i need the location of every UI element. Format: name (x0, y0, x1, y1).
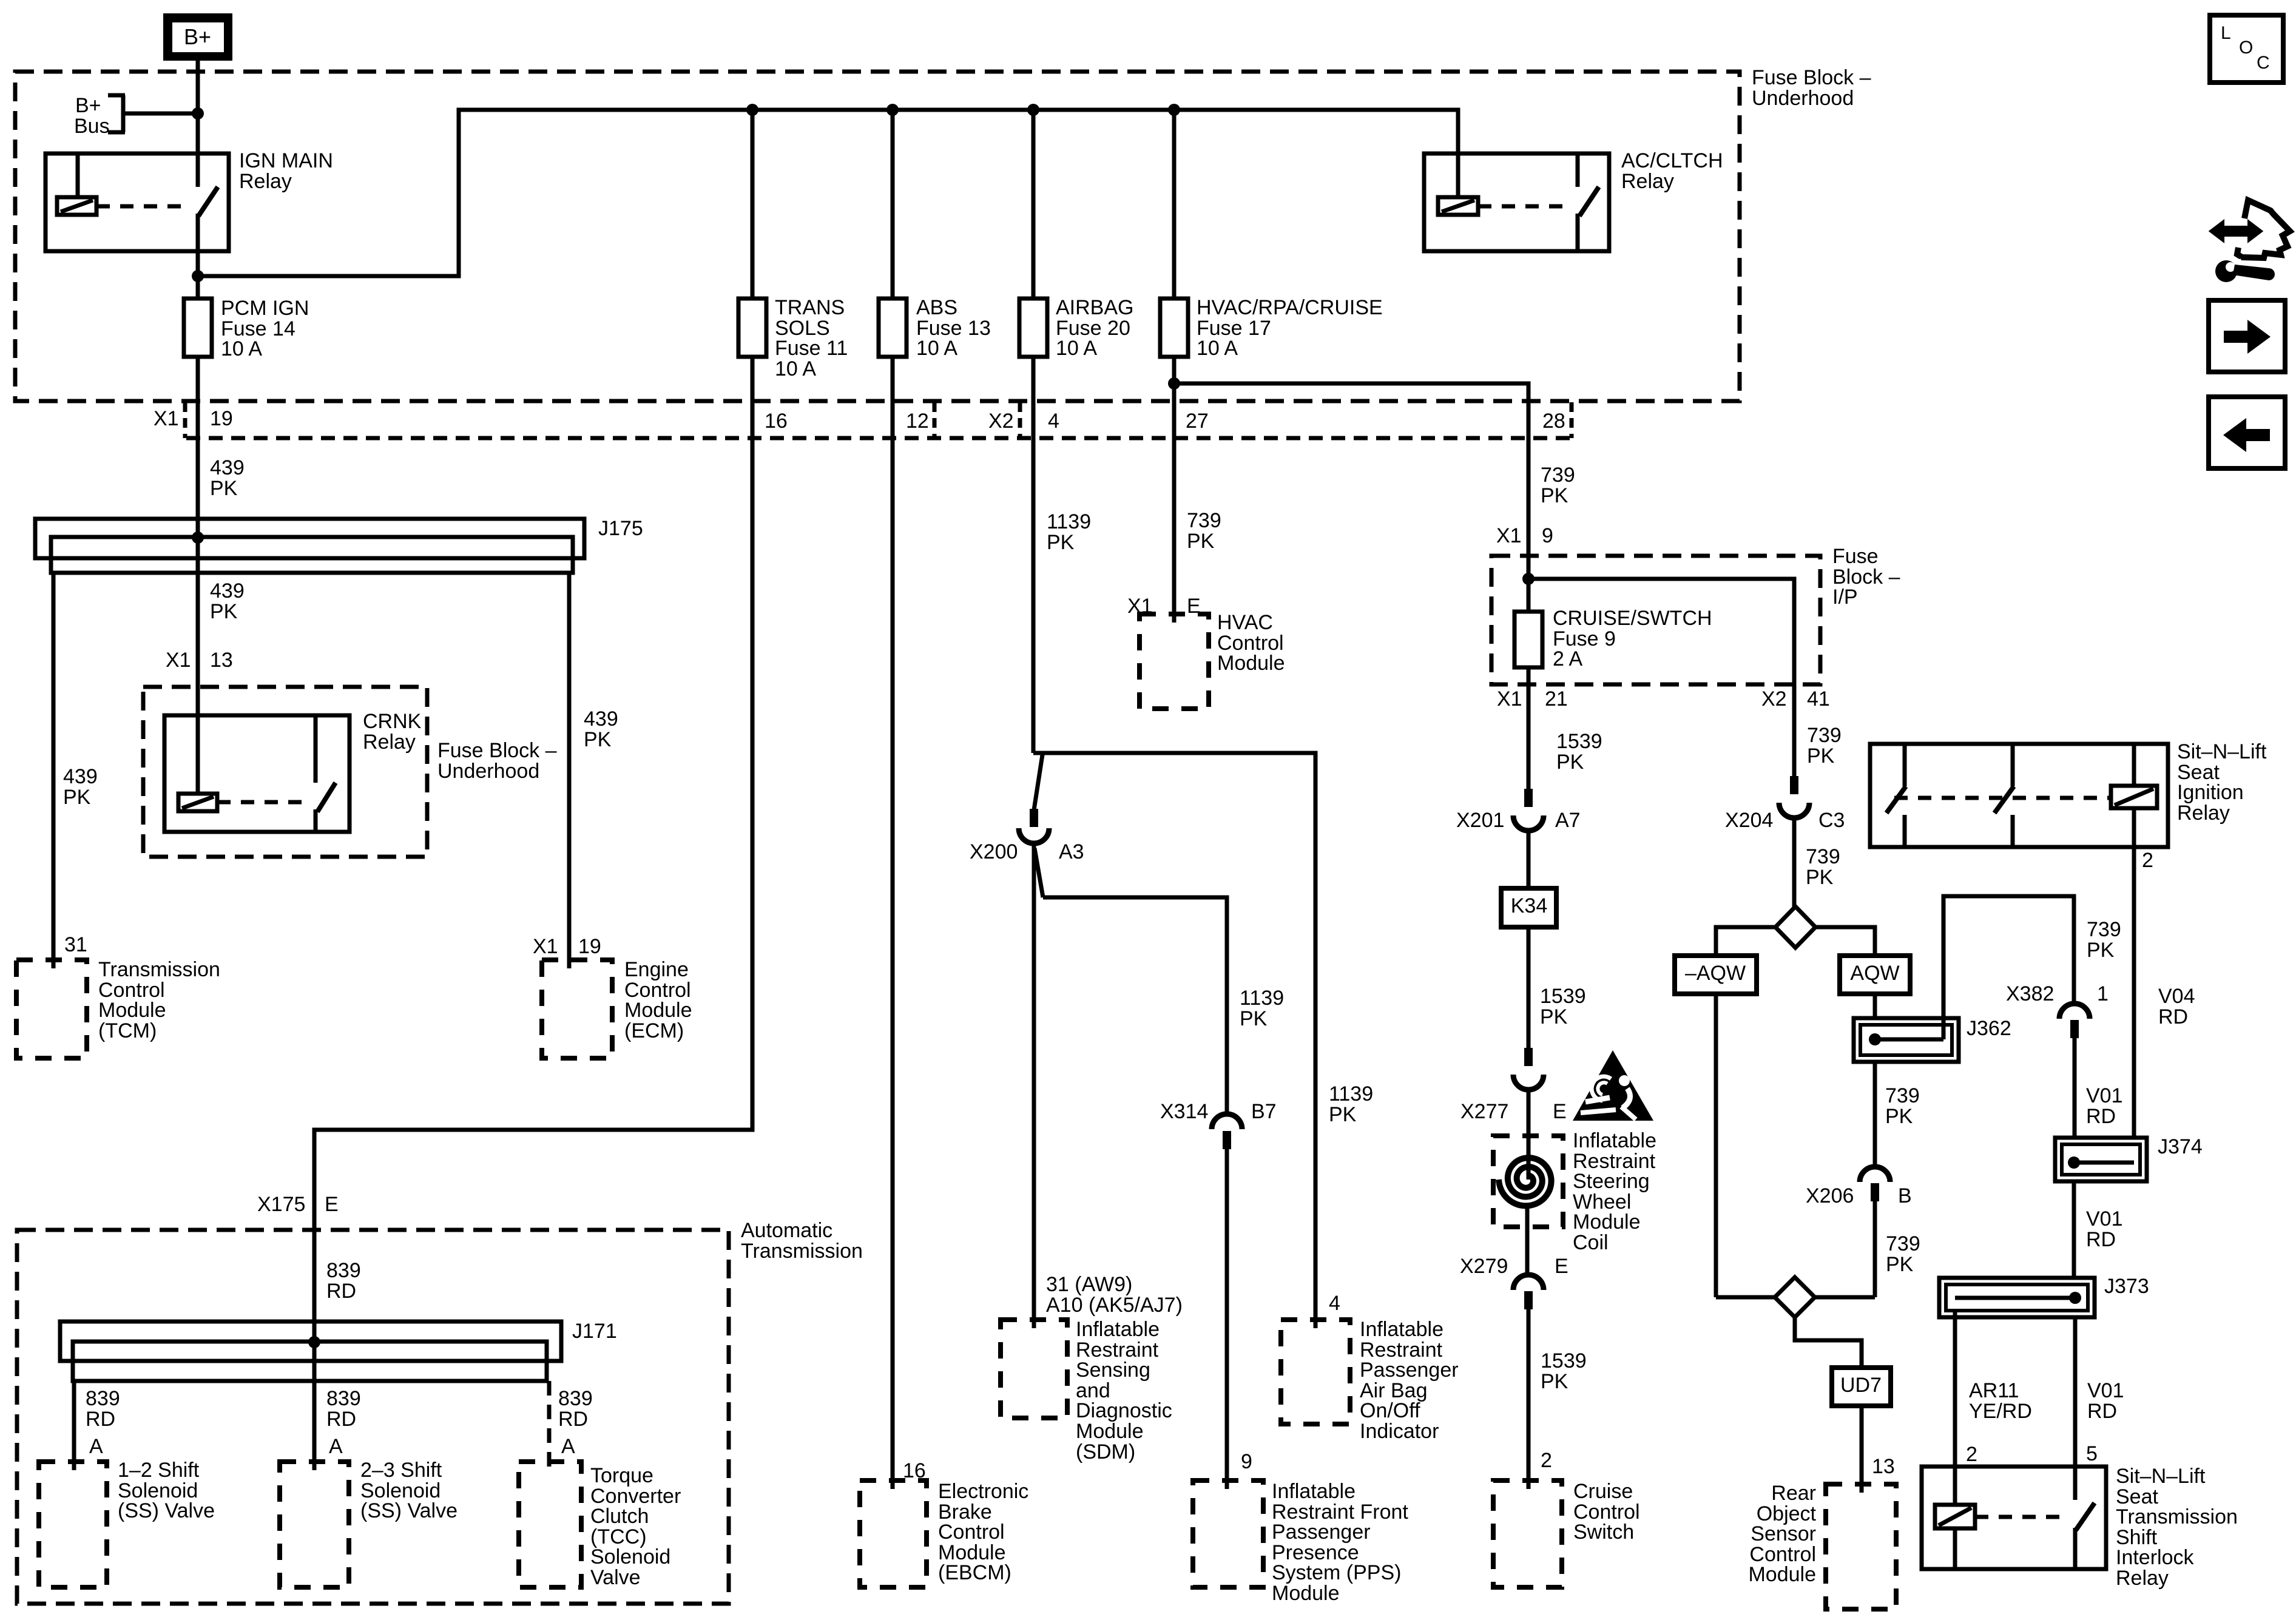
svg-text:X1: X1 (166, 649, 191, 672)
svg-text:2–3 Shift: 2–3 Shift (360, 1459, 442, 1482)
svg-text:A: A (89, 1435, 103, 1458)
svg-text:X382: X382 (2006, 982, 2054, 1005)
svg-text:X206: X206 (1806, 1184, 1854, 1207)
svg-text:RD: RD (326, 1280, 356, 1303)
svg-text:Inflatable: Inflatable (1272, 1480, 1356, 1503)
svg-text:A7: A7 (1555, 809, 1581, 832)
svg-text:A: A (329, 1435, 343, 1458)
svg-text:PK: PK (210, 477, 238, 500)
svg-text:X2: X2 (988, 410, 1014, 433)
svg-text:Fuse: Fuse (1832, 545, 1879, 568)
svg-text:J373: J373 (2104, 1275, 2149, 1298)
svg-text:V01: V01 (2086, 1207, 2123, 1230)
svg-text:2: 2 (1541, 1449, 1552, 1472)
svg-text:Inflatable: Inflatable (1573, 1129, 1656, 1152)
svg-text:V01: V01 (2086, 1084, 2123, 1107)
svg-text:Passenger: Passenger (1272, 1521, 1371, 1544)
svg-text:13: 13 (210, 649, 233, 672)
svg-text:31 (AW9): 31 (AW9) (1046, 1273, 1132, 1296)
svg-text:PK: PK (1047, 531, 1075, 554)
svg-text:13: 13 (1872, 1455, 1895, 1478)
svg-text:2 A: 2 A (1553, 647, 1582, 670)
svg-text:1139: 1139 (1329, 1082, 1373, 1106)
svg-text:X2: X2 (1761, 687, 1787, 711)
svg-text:12: 12 (906, 410, 929, 433)
svg-text:Module: Module (1573, 1210, 1641, 1234)
svg-text:PK: PK (584, 728, 612, 751)
svg-text:J362: J362 (1967, 1017, 2011, 1040)
svg-text:PK: PK (63, 786, 91, 809)
svg-text:(ECM): (ECM) (624, 1019, 684, 1042)
svg-text:–AQW: –AQW (1685, 962, 1746, 985)
svg-text:X200: X200 (970, 840, 1018, 863)
svg-text:PK: PK (1885, 1105, 1913, 1128)
svg-text:X204: X204 (1725, 809, 1773, 832)
svg-text:Transmission: Transmission (741, 1240, 863, 1263)
svg-text:9: 9 (1542, 524, 1553, 547)
svg-text:839: 839 (326, 1387, 361, 1410)
svg-text:E: E (325, 1193, 339, 1216)
svg-text:739: 739 (1541, 464, 1575, 487)
svg-text:YE/RD: YE/RD (1969, 1400, 2032, 1423)
svg-text:Module: Module (1076, 1420, 1144, 1443)
svg-text:K34: K34 (1511, 894, 1548, 917)
svg-text:(SDM): (SDM) (1076, 1440, 1135, 1463)
svg-text:RD: RD (2087, 1400, 2117, 1423)
svg-text:1: 1 (2097, 982, 2109, 1005)
svg-text:Engine: Engine (624, 958, 689, 981)
svg-text:Switch: Switch (1573, 1521, 1634, 1544)
svg-text:X314: X314 (1160, 1100, 1208, 1123)
svg-text:Bus: Bus (74, 115, 110, 138)
svg-text:PK: PK (1806, 866, 1834, 889)
svg-text:X277: X277 (1460, 1100, 1508, 1123)
svg-text:16: 16 (765, 410, 788, 433)
svg-text:RD: RD (2158, 1005, 2188, 1028)
svg-text:AQW: AQW (1850, 962, 1899, 985)
svg-text:Indicator: Indicator (1360, 1420, 1439, 1443)
svg-text:AC/CLTCH: AC/CLTCH (1621, 149, 1723, 172)
svg-text:Module: Module (1748, 1563, 1816, 1586)
svg-text:Fuse 11: Fuse 11 (775, 337, 848, 360)
svg-text:J171: J171 (572, 1320, 617, 1343)
svg-text:B7: B7 (1251, 1100, 1277, 1123)
svg-text:RD: RD (2086, 1105, 2116, 1128)
svg-text:Underhood: Underhood (437, 760, 539, 783)
svg-text:Sensing: Sensing (1076, 1359, 1150, 1382)
svg-text:Cruise: Cruise (1573, 1480, 1633, 1503)
svg-text:31: 31 (64, 933, 87, 956)
svg-text:10 A: 10 A (221, 337, 262, 360)
svg-text:19: 19 (578, 935, 601, 958)
svg-text:System (PPS): System (PPS) (1272, 1561, 1401, 1584)
svg-text:X279: X279 (1460, 1255, 1508, 1278)
svg-text:X175: X175 (257, 1193, 305, 1216)
svg-text:C3: C3 (1818, 809, 1845, 832)
svg-text:1539: 1539 (1556, 730, 1602, 753)
svg-text:(TCM): (TCM) (98, 1019, 157, 1042)
svg-text:9: 9 (1241, 1450, 1252, 1473)
svg-text:CRUISE/SWTCH: CRUISE/SWTCH (1553, 607, 1712, 630)
svg-text:V04: V04 (2158, 985, 2195, 1008)
svg-text:2: 2 (2142, 849, 2153, 872)
svg-text:PK: PK (1556, 751, 1584, 774)
svg-text:Clutch: Clutch (590, 1505, 649, 1528)
svg-text:PK: PK (1329, 1103, 1357, 1126)
svg-text:IGN MAIN: IGN MAIN (239, 149, 333, 172)
svg-text:Control: Control (938, 1521, 1005, 1544)
svg-text:10 A: 10 A (775, 357, 816, 380)
svg-text:739: 739 (1807, 724, 1842, 747)
svg-text:L: L (2221, 23, 2231, 43)
svg-text:Solenoid: Solenoid (590, 1545, 670, 1568)
svg-text:B: B (1898, 1184, 1912, 1207)
svg-text:PK: PK (1807, 744, 1835, 768)
svg-text:Diagnostic: Diagnostic (1076, 1399, 1172, 1422)
svg-text:CRNK: CRNK (363, 710, 422, 733)
svg-text:X1: X1 (1496, 524, 1522, 547)
svg-text:739: 739 (1886, 1232, 1920, 1255)
svg-text:439: 439 (63, 765, 98, 788)
svg-text:PK: PK (210, 600, 238, 623)
svg-text:839: 839 (558, 1387, 593, 1410)
svg-text:27: 27 (1186, 410, 1209, 433)
svg-text:1539: 1539 (1541, 1349, 1587, 1372)
svg-text:HVAC: HVAC (1217, 611, 1273, 634)
svg-text:Sensor: Sensor (1751, 1522, 1816, 1545)
svg-text:5: 5 (2086, 1442, 2098, 1465)
svg-text:(SS) Valve: (SS) Valve (360, 1499, 458, 1522)
svg-text:ABS: ABS (916, 296, 957, 319)
svg-text:HVAC/RPA/CRUISE: HVAC/RPA/CRUISE (1197, 296, 1383, 319)
svg-text:Valve: Valve (590, 1566, 641, 1589)
svg-text:Interlock: Interlock (2116, 1546, 2194, 1569)
svg-text:E: E (1555, 1255, 1568, 1278)
svg-text:1–2 Shift: 1–2 Shift (118, 1459, 200, 1482)
svg-text:839: 839 (86, 1387, 120, 1410)
svg-text:4: 4 (1329, 1292, 1340, 1315)
svg-text:839: 839 (326, 1259, 361, 1282)
svg-text:PCM IGN: PCM IGN (221, 297, 309, 320)
svg-text:Coil: Coil (1573, 1231, 1609, 1254)
svg-text:Steering: Steering (1573, 1170, 1650, 1193)
svg-text:(EBCM): (EBCM) (938, 1561, 1011, 1584)
svg-text:E: E (1553, 1100, 1567, 1123)
svg-text:PK: PK (1541, 484, 1568, 507)
svg-text:Module: Module (1217, 652, 1285, 675)
svg-text:Module: Module (98, 999, 166, 1022)
svg-text:Relay: Relay (2177, 802, 2230, 825)
svg-text:Sit–N–Lift: Sit–N–Lift (2177, 740, 2267, 763)
svg-text:X1: X1 (154, 407, 179, 430)
svg-text:10 A: 10 A (1197, 337, 1238, 360)
svg-text:Transmission: Transmission (98, 958, 220, 981)
svg-text:On/Off: On/Off (1360, 1399, 1420, 1422)
svg-text:A: A (561, 1435, 575, 1458)
svg-text:X1: X1 (1497, 687, 1522, 711)
svg-text:PK: PK (2087, 939, 2115, 962)
svg-text:A10 (AK5/AJ7): A10 (AK5/AJ7) (1046, 1294, 1183, 1317)
svg-text:739: 739 (1885, 1084, 1920, 1107)
svg-text:10 A: 10 A (1056, 337, 1097, 360)
svg-text:PK: PK (1541, 1370, 1568, 1393)
svg-text:J374: J374 (2158, 1135, 2203, 1158)
svg-text:J175: J175 (598, 517, 643, 540)
svg-text:Rear: Rear (1771, 1482, 1816, 1505)
svg-text:Underhood: Underhood (1752, 87, 1854, 110)
svg-text:Passenger: Passenger (1360, 1359, 1459, 1382)
svg-text:1539: 1539 (1540, 985, 1586, 1008)
svg-text:Relay: Relay (363, 731, 416, 754)
svg-text:439: 439 (210, 579, 245, 603)
svg-text:Inflatable: Inflatable (1076, 1318, 1160, 1341)
svg-text:Ignition: Ignition (2177, 781, 2244, 804)
svg-text:Relay: Relay (239, 170, 292, 193)
svg-text:Fuse Block –: Fuse Block – (1752, 66, 1871, 89)
svg-text:Electronic: Electronic (938, 1480, 1028, 1503)
svg-text:Module: Module (624, 999, 692, 1022)
svg-text:19: 19 (210, 407, 233, 430)
svg-text:V01: V01 (2087, 1379, 2124, 1402)
svg-text:Automatic: Automatic (741, 1219, 832, 1242)
svg-text:PK: PK (1540, 1005, 1568, 1028)
svg-text:1139: 1139 (1240, 987, 1284, 1010)
svg-text:Relay: Relay (1621, 170, 1674, 193)
svg-text:Relay: Relay (2116, 1567, 2169, 1590)
svg-text:28: 28 (1542, 410, 1565, 433)
svg-text:(SS) Valve: (SS) Valve (118, 1499, 215, 1522)
svg-text:739: 739 (2087, 918, 2121, 941)
svg-text:41: 41 (1807, 687, 1830, 711)
svg-text:Inflatable: Inflatable (1360, 1318, 1443, 1341)
svg-text:C: C (2257, 53, 2270, 73)
svg-text:I/P: I/P (1832, 586, 1858, 609)
svg-text:RD: RD (86, 1408, 115, 1431)
svg-text:O: O (2239, 38, 2253, 58)
svg-text:10 A: 10 A (916, 337, 957, 360)
svg-text:RD: RD (558, 1408, 588, 1431)
svg-text:B+: B+ (184, 24, 211, 49)
svg-text:Transmission: Transmission (2116, 1505, 2238, 1528)
svg-text:PK: PK (1187, 530, 1215, 553)
svg-text:Fuse Block –: Fuse Block – (437, 739, 557, 762)
svg-text:X1: X1 (533, 935, 558, 958)
svg-text:739: 739 (1806, 845, 1840, 868)
svg-text:Torque: Torque (590, 1464, 653, 1487)
svg-text:2: 2 (1966, 1443, 1977, 1466)
svg-text:UD7: UD7 (1840, 1374, 1882, 1397)
svg-text:1139: 1139 (1047, 510, 1091, 533)
svg-text:X201: X201 (1456, 809, 1504, 832)
svg-text:B+: B+ (75, 94, 101, 117)
svg-text:TRANS: TRANS (775, 296, 845, 319)
svg-text:A3: A3 (1059, 840, 1084, 863)
svg-text:439: 439 (210, 456, 245, 479)
svg-text:Module: Module (1272, 1582, 1340, 1605)
svg-text:RD: RD (326, 1408, 356, 1431)
svg-text:4: 4 (1048, 410, 1059, 433)
svg-text:439: 439 (584, 707, 618, 731)
svg-text:PK: PK (1240, 1007, 1268, 1030)
svg-text:739: 739 (1187, 509, 1221, 532)
svg-text:AIRBAG: AIRBAG (1056, 296, 1133, 319)
svg-text:AR11: AR11 (1969, 1379, 2019, 1402)
svg-text:Sit–N–Lift: Sit–N–Lift (2116, 1465, 2206, 1488)
svg-text:RD: RD (2086, 1228, 2116, 1251)
svg-text:21: 21 (1545, 687, 1568, 711)
svg-text:PK: PK (1886, 1253, 1914, 1276)
